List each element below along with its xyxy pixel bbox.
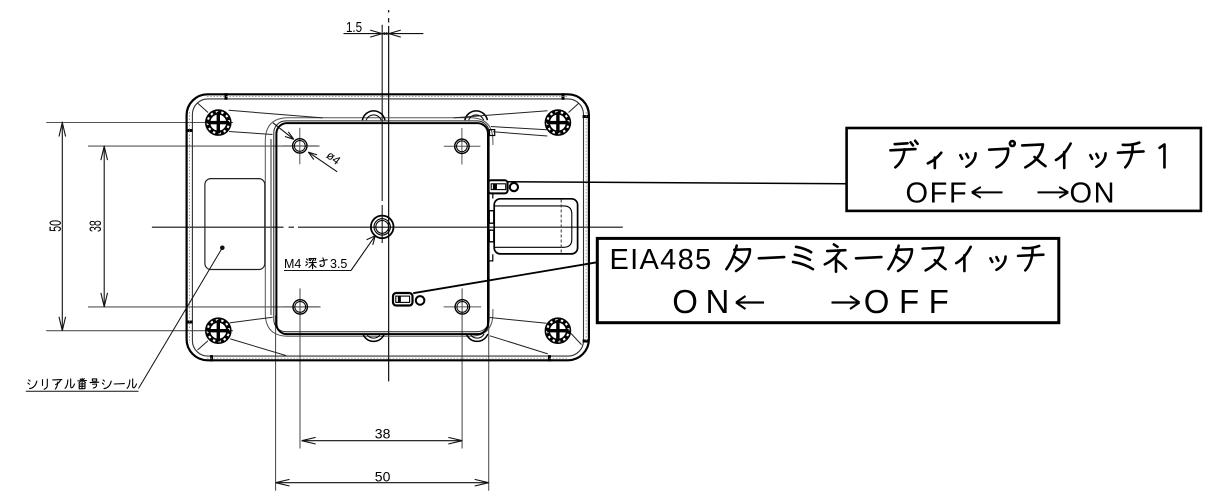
svg-text:EIA485: EIA485 — [610, 244, 713, 276]
left 38 dimension — [101, 146, 108, 308]
serial sticker leader line with dot — [139, 246, 225, 389]
serial number sticker — [205, 179, 265, 270]
top 1.5 dimension — [344, 30, 424, 37]
inner plate main outline — [276, 123, 488, 334]
connector latch upper — [489, 211, 494, 224]
M4 label underline — [284, 270, 351, 272]
svg-text:38: 38 — [375, 425, 391, 441]
bottom bump right — [466, 334, 487, 341]
svg-text:50: 50 — [375, 468, 391, 484]
connector latch lower — [489, 230, 494, 242]
serial sticker label text (katakana) — [28, 378, 137, 389]
leader line to dip switch label box — [508, 182, 847, 184]
case inner edge line — [192, 99, 583, 356]
corner screw BL — [206, 318, 231, 343]
dip switch 1 label box — [847, 128, 1201, 211]
M4 center hole — [371, 216, 394, 239]
rib lines TL corner — [198, 103, 323, 135]
svg-text:3.5: 3.5 — [330, 257, 347, 271]
extension line, 50-dim bottom-left (through BL screw) — [46, 330, 233, 332]
extension line, bottom 38-dim left vertical — [299, 288, 301, 448]
plate edge step below connector — [488, 254, 493, 261]
inner hole BR — [444, 300, 482, 314]
svg-text:38: 38 — [86, 220, 105, 232]
EIA485 terminator label box — [597, 238, 1059, 322]
inner hole TL (o4) — [283, 128, 318, 165]
extension line, 50-dim top-left (through TL screw) — [46, 122, 233, 124]
rib lines BR corner — [490, 318, 582, 354]
case outer outline — [187, 94, 589, 360]
case edge band hatch — [190, 97, 587, 359]
recess pocket outline — [265, 118, 493, 336]
plate edge step above connector — [488, 193, 493, 198]
svg-text:ON: ON — [1070, 177, 1117, 209]
extension line, 38-dim left top (to TL inner hole) — [88, 145, 320, 147]
recess pocket inner lip line — [270, 139, 272, 315]
bottom bump left — [363, 334, 384, 341]
rib lines BL corner — [198, 317, 287, 355]
extension line, bottom 50-dim left vertical — [275, 316, 277, 491]
corner screw TL — [206, 110, 231, 135]
top bump left — [362, 111, 385, 120]
inner hole TR — [444, 128, 481, 165]
EIA485 switch indicator hole — [416, 296, 425, 305]
o4 hole leader (diameter arrows) — [273, 123, 337, 172]
svg-text:1.5: 1.5 — [346, 19, 362, 36]
inner hole BL — [283, 300, 321, 314]
corner screw BR — [545, 318, 570, 343]
leader line to EIA485 label box — [413, 262, 597, 293]
top bump right — [465, 111, 488, 120]
connector block — [494, 199, 577, 254]
bottom 38 dimension — [302, 437, 463, 444]
small tab at plate TR corner — [490, 130, 495, 136]
rib lines TR corner — [454, 103, 580, 136]
inner plate thin contour — [274, 121, 489, 332]
extension line, 38-dim left bottom (to BL inner hole) — [88, 306, 320, 308]
svg-text:M4: M4 — [284, 257, 301, 271]
dip switch 1 body — [488, 180, 508, 193]
extension line, bottom 38-dim right vertical — [461, 288, 463, 448]
extension line, bottom 50-dim right vertical — [488, 316, 490, 491]
serial label underline — [26, 390, 139, 392]
corner screw TR — [545, 110, 570, 135]
M4 hole axis line (offset 1.5) — [381, 25, 383, 243]
vertical centerline of case (dash-dot top, solid through drawing) — [388, 10, 390, 381]
case edge parting notches — [186, 93, 590, 361]
svg-text:OFF: OFF — [906, 177, 969, 209]
dip switch label line 1 (katakana) — [890, 141, 1164, 168]
bottom 50 dimension — [276, 479, 489, 486]
dip switch 1 indicator hole — [510, 183, 518, 191]
svg-text:ON: ON — [672, 283, 737, 320]
M4 leader arrow — [351, 236, 375, 271]
left 50 dimension — [59, 122, 66, 331]
svg-text:OFF: OFF — [864, 283, 958, 320]
EIA485 terminator switch body — [393, 293, 413, 306]
horizontal centerline of case — [152, 226, 623, 228]
svg-text:50: 50 — [46, 220, 65, 232]
